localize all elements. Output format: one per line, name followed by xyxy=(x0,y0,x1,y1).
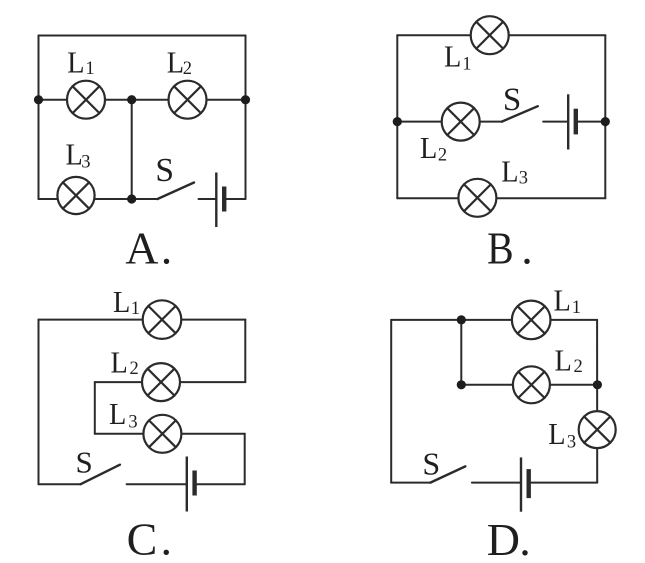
wire: D right side through L3 xyxy=(596,320,598,483)
node dot A bottom xyxy=(127,194,136,203)
switch S blade (C) xyxy=(81,465,120,485)
wire: D segment switch to battery xyxy=(472,482,521,484)
battery (A): long plate xyxy=(215,173,217,228)
battery (B): short thick plate xyxy=(574,109,578,135)
svg-text:D: D xyxy=(487,514,520,563)
svg-text:S: S xyxy=(155,152,174,189)
battery (D): short thick plate xyxy=(527,469,531,498)
wire: B middle branch L2 to switch xyxy=(397,121,502,123)
wire: A segment switch to battery xyxy=(199,198,217,200)
label L3 (B) xyxy=(501,153,528,188)
wire: C L3 row xyxy=(95,433,245,435)
svg-text:3: 3 xyxy=(81,153,90,173)
wire: C bottom left to switch xyxy=(39,483,81,485)
svg-text:L: L xyxy=(111,344,128,379)
node dot A right xyxy=(241,95,250,104)
label L3 (C) xyxy=(109,396,138,432)
label A. xyxy=(125,222,172,273)
wire: A center vertical from node to bottom xyxy=(131,100,133,199)
switch S blade (D) xyxy=(430,466,465,482)
wire: C L2 row xyxy=(95,381,246,383)
lamp L2 (C) xyxy=(142,363,180,401)
svg-text:1: 1 xyxy=(462,54,471,74)
label L2 (C) xyxy=(111,344,139,379)
lamp L3 (B) xyxy=(458,179,496,217)
battery (D): long plate xyxy=(520,457,522,511)
label L3 (D) xyxy=(548,416,576,452)
battery (C): long plate xyxy=(186,457,188,512)
node dot D mid-right xyxy=(593,380,602,389)
wire: C left vertical L2 to L3 row xyxy=(94,382,96,434)
wire: C segment battery to right xyxy=(195,483,245,485)
svg-text:1: 1 xyxy=(572,298,581,318)
svg-text:S: S xyxy=(422,446,440,482)
svg-text:3: 3 xyxy=(128,413,137,433)
wire: D inner vertical node to node xyxy=(460,320,462,385)
wire: A left side xyxy=(38,36,40,200)
node dot B left xyxy=(393,117,402,126)
svg-text:L: L xyxy=(167,44,184,79)
svg-text:S: S xyxy=(76,444,93,479)
wire: A top side xyxy=(39,35,246,37)
wire: B top side with L1 xyxy=(397,34,605,36)
node dot B right xyxy=(601,117,610,126)
switch S blade (B) xyxy=(502,106,538,121)
svg-text:S: S xyxy=(503,82,521,118)
svg-text:L: L xyxy=(67,44,84,79)
wire: C top side with L1 xyxy=(39,319,246,321)
svg-text:2: 2 xyxy=(574,357,583,377)
lamp L3 (C) xyxy=(143,415,181,453)
battery (B): long plate xyxy=(567,94,569,149)
wire: C left side xyxy=(38,320,40,485)
label B. xyxy=(487,222,533,273)
battery (C): short thick plate xyxy=(192,471,196,496)
svg-text:L: L xyxy=(548,416,565,451)
wire: A right side xyxy=(245,36,247,200)
switch S blade (A) xyxy=(158,183,195,200)
label L2 (A) xyxy=(167,44,192,79)
svg-text:L: L xyxy=(555,343,572,378)
lamp L2 (A) xyxy=(169,81,207,119)
wire: B left side xyxy=(396,35,398,198)
svg-text:.: . xyxy=(161,513,173,563)
label L1 (C) xyxy=(113,284,140,319)
lamp L1 (C) xyxy=(143,300,182,339)
lamp L1 (B) xyxy=(471,16,509,54)
label L3 (A) xyxy=(66,137,91,173)
svg-text:2: 2 xyxy=(438,146,447,166)
svg-text:C: C xyxy=(127,513,158,563)
label L1 (D) xyxy=(554,282,581,318)
svg-text:2: 2 xyxy=(183,59,192,79)
lamp L2 (D) xyxy=(513,366,550,403)
lamp L3 (A) xyxy=(57,177,94,214)
svg-text:.: . xyxy=(521,222,533,273)
label D. xyxy=(487,514,531,563)
wire: A bottom left segment through L3 xyxy=(39,198,158,200)
svg-text:.: . xyxy=(161,222,173,273)
wire: D segment battery to right xyxy=(529,482,598,484)
svg-text:L: L xyxy=(109,396,126,431)
wire: D L2 row xyxy=(461,384,597,386)
svg-text:.: . xyxy=(519,514,531,563)
svg-text:L: L xyxy=(501,153,518,188)
svg-text:A: A xyxy=(125,222,158,273)
label L1 (A) xyxy=(67,44,94,79)
wire: C right vertical L1 to L2 row xyxy=(244,320,246,383)
label L1 (B) xyxy=(444,39,471,75)
svg-text:1: 1 xyxy=(131,299,140,319)
svg-text:3: 3 xyxy=(519,168,528,188)
wire: D top side with L1 xyxy=(391,319,597,321)
node dot D mid-left xyxy=(457,380,466,389)
wire: B segment battery to right node xyxy=(576,121,606,123)
svg-text:L: L xyxy=(554,282,571,317)
node dot D top xyxy=(457,315,466,324)
svg-text:2: 2 xyxy=(130,359,139,379)
wire: B segment switch to battery xyxy=(543,121,568,123)
lamp L1 (A) xyxy=(67,81,105,119)
svg-text:L: L xyxy=(444,39,461,74)
label L2 (D) xyxy=(555,343,583,378)
label L2 (B) xyxy=(420,130,447,166)
node dot A middle xyxy=(127,95,136,104)
lamp L3 (D) xyxy=(579,411,616,448)
svg-text:3: 3 xyxy=(567,432,576,452)
wire: B right side xyxy=(604,35,606,198)
wire: B bottom side with L3 xyxy=(397,197,605,199)
lamp L1 (D) xyxy=(512,301,551,340)
node dot A left xyxy=(34,95,43,104)
wire: A middle branch with L1 L2 xyxy=(39,99,246,101)
wire: A segment battery to right side xyxy=(224,198,245,200)
wire: C right vertical L3 row to bottom xyxy=(244,434,246,484)
lamp L2 (B) xyxy=(442,103,480,141)
battery (A): short thick plate xyxy=(222,187,226,212)
svg-text:L: L xyxy=(420,130,437,165)
label C. xyxy=(127,513,172,563)
wire: D bottom left to switch xyxy=(391,482,430,484)
svg-text:L: L xyxy=(113,284,130,319)
wire: C segment switch to battery xyxy=(127,483,187,485)
svg-text:1: 1 xyxy=(85,59,94,79)
wire: D left side xyxy=(390,320,392,483)
svg-text:B: B xyxy=(487,222,513,273)
